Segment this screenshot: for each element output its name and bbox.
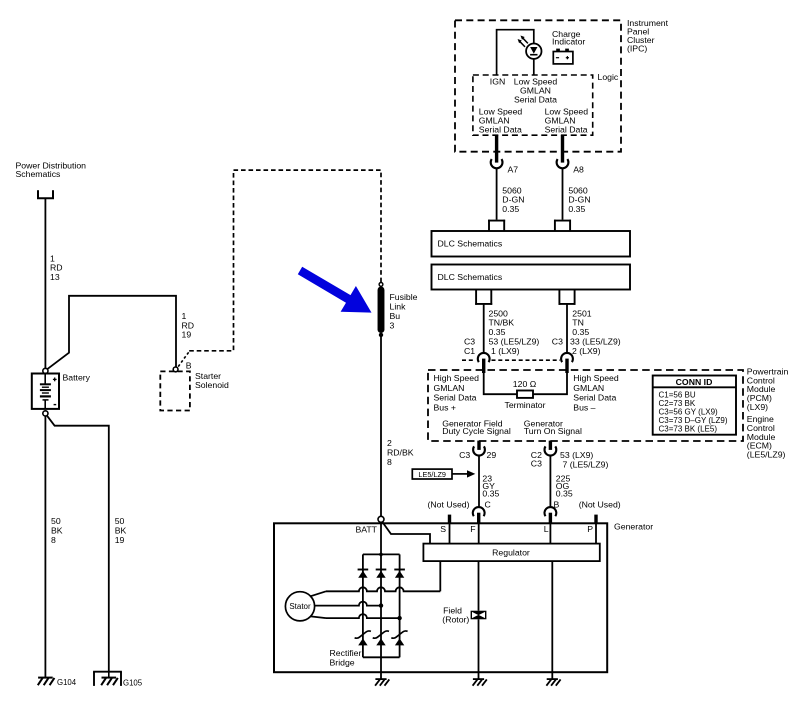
svg-text:2: 2 [387, 438, 392, 448]
svg-text:1 (LX9): 1 (LX9) [491, 346, 520, 356]
off-page connector into DLC (left) [488, 220, 490, 231]
wire S to regulator [449, 523, 451, 543]
svg-text:Serial Data: Serial Data [514, 94, 557, 104]
node battery positive [43, 368, 48, 373]
svg-text:BATT: BATT [355, 524, 377, 534]
field rotor winding [471, 611, 487, 620]
junction dot phase 3 [397, 616, 401, 620]
CONN ID header line [653, 386, 736, 388]
svg-text:Terminator: Terminator [505, 400, 546, 410]
svg-text:GMLAN: GMLAN [434, 383, 465, 393]
svg-text:RD/BK: RD/BK [387, 448, 414, 458]
svg-text:Indicator: Indicator [552, 36, 585, 46]
svg-text:Regulator: Regulator [492, 548, 530, 558]
ground G105 [108, 672, 110, 678]
svg-text:0.35: 0.35 [572, 327, 589, 337]
svg-text:0.35: 0.35 [568, 204, 585, 214]
svg-text:P: P [587, 524, 593, 534]
rectifier bottom bus [363, 656, 400, 658]
off-page connector out of DLC (left) [475, 290, 477, 305]
diode bottom leg3 [391, 631, 407, 638]
svg-text:C1: C1 [464, 346, 475, 356]
terminal blade A7 [495, 135, 498, 162]
junction dot below fusible link [379, 333, 383, 337]
connector C3 pin 29 cup [473, 446, 485, 455]
svg-text:(IPC): (IPC) [627, 44, 647, 54]
connector C3 hood (right) [561, 353, 573, 362]
ground G105 bracket [93, 672, 95, 686]
wire 5060 D-GN 0.35 (A7) [496, 168, 498, 219]
wire L to ground [551, 561, 553, 679]
svg-text:0.35: 0.35 [502, 204, 519, 214]
svg-text:Bridge: Bridge [330, 658, 355, 668]
svg-text:13: 13 [50, 272, 60, 282]
svg-text:0.35: 0.35 [489, 327, 506, 337]
svg-text:Turn On Signal: Turn On Signal [524, 426, 582, 436]
stator phase wire 2 [315, 602, 381, 606]
off-page connector out of DLC (right) [558, 290, 560, 305]
battery icon charge indicator [553, 52, 573, 64]
svg-text:Rectifier: Rectifier [330, 648, 362, 658]
terminal stub S (not used) [448, 515, 451, 524]
wire 1 RD 13 [44, 198, 46, 368]
svg-text:C: C [485, 500, 491, 510]
charge indicator lamp LED [526, 44, 541, 59]
DLC Schematics box 1 [432, 231, 631, 257]
logic dashed box [473, 75, 593, 135]
wire IGN to indicator lamp [497, 30, 534, 75]
svg-text:Serial Data: Serial Data [573, 393, 616, 403]
terminal blade C3-29 [477, 441, 480, 450]
svg-text:IGN: IGN [490, 77, 505, 87]
terminal blade into PCM (left) [482, 359, 485, 373]
svg-text:C3: C3 [531, 459, 542, 469]
svg-text:High Speed: High Speed [434, 373, 480, 383]
diode top leg2 [376, 569, 387, 571]
wire BATT into rectifier [380, 522, 382, 679]
svg-text:Battery: Battery [63, 373, 91, 383]
svg-text:Stator: Stator [289, 602, 311, 611]
svg-text:GMLAN: GMLAN [573, 383, 604, 393]
wire LED to logic [533, 59, 535, 75]
svg-text:8: 8 [51, 535, 56, 545]
svg-text:LE5/LZ9: LE5/LZ9 [418, 470, 446, 479]
terminal blade F [477, 513, 480, 524]
node battery negative [43, 411, 48, 416]
stator phase wire 1 (to regulator) [311, 591, 326, 596]
svg-text:G104: G104 [57, 678, 77, 687]
dotted wire from B to fusible link [178, 351, 189, 367]
LE5/LZ9 arrow [452, 473, 468, 475]
svg-text:C3: C3 [552, 337, 563, 347]
regulator box [423, 544, 599, 562]
svg-text:S: S [440, 524, 446, 534]
wire field to ground [478, 619, 480, 679]
starter solenoid dashed box [160, 371, 190, 410]
svg-text:A8: A8 [573, 164, 584, 174]
fusible link Bu 3 [378, 290, 385, 330]
svg-text:DLC Schematics: DLC Schematics [438, 272, 503, 282]
wire bus+ to terminator [484, 373, 517, 394]
wire 225 OG 0.35 [549, 456, 551, 508]
wire 23 GY 0.35 [478, 456, 480, 508]
svg-text:Link: Link [390, 302, 407, 312]
stator circle [285, 592, 314, 621]
svg-text:Fusible: Fusible [390, 292, 418, 302]
wire 2500 TN/BK 0.35 [483, 304, 485, 353]
wire branch to starter solenoid [47, 296, 176, 369]
terminal circle at fusible link [379, 283, 383, 287]
wire regulator to field [478, 561, 480, 611]
svg-text:C3: C3 [459, 450, 470, 460]
svg-text:Serial Data: Serial Data [545, 124, 588, 134]
svg-text:(LX9): (LX9) [747, 402, 768, 412]
wire 2501 TN 0.35 [566, 304, 568, 353]
CONN ID table box [653, 376, 736, 435]
terminal blade A8 [561, 135, 564, 162]
svg-text:29: 29 [487, 450, 497, 460]
IPC dashed box [455, 20, 621, 151]
svg-text:Logic: Logic [598, 72, 619, 82]
svg-text:Bu: Bu [390, 311, 401, 321]
diode bottom leg1 [355, 631, 371, 638]
svg-text:7 (LE5/LZ9): 7 (LE5/LZ9) [563, 460, 609, 470]
wire F to regulator [478, 523, 480, 543]
wire P to regulator [595, 523, 597, 543]
ground below rectifier [375, 678, 386, 680]
svg-text:Generator: Generator [614, 522, 653, 532]
rectifier top bus [363, 553, 400, 555]
svg-text:(Not Used): (Not Used) [579, 500, 621, 510]
blue arrow pointing at fusible link [298, 267, 372, 313]
ground G104 [38, 677, 53, 679]
LE5/LZ9 callout box [412, 469, 452, 479]
svg-text:(LE5/LZ9): (LE5/LZ9) [747, 450, 786, 460]
connector A8 cup [557, 159, 569, 168]
diode bottom leg2 [373, 631, 389, 638]
wire to G105 [47, 415, 109, 671]
ground below field [473, 678, 484, 680]
wire 2 RD/BK 8 [380, 337, 382, 517]
connector B hood [545, 507, 557, 516]
svg-text:0.35: 0.35 [556, 488, 573, 498]
node B starter solenoid [173, 367, 178, 372]
junction dot BATT bus [379, 553, 383, 557]
wire regulator voltage sense [439, 561, 441, 591]
svg-text:CONN ID: CONN ID [676, 377, 713, 387]
svg-text:3: 3 [390, 321, 395, 331]
svg-text:L: L [544, 524, 549, 534]
terminal blade C2/C3 [549, 441, 552, 450]
node BATT terminal [378, 516, 384, 522]
connector C3/C1 hood (left) [478, 353, 490, 362]
svg-text:8: 8 [387, 457, 392, 467]
diode top leg3 [394, 569, 405, 571]
wire BATT to regulator [382, 522, 430, 544]
svg-text:Bus +: Bus + [434, 403, 456, 413]
svg-text:120 Ω: 120 Ω [513, 379, 537, 389]
wire 5060 D-GN 0.35 (A8) [562, 168, 564, 219]
ground below L wire [547, 678, 558, 680]
wire bus- to terminator [533, 373, 567, 394]
svg-text:Schematics: Schematics [16, 169, 62, 179]
PCM/ECM dashed box [428, 370, 743, 441]
svg-text:(Rotor): (Rotor) [442, 614, 469, 624]
svg-text:Serial Data: Serial Data [434, 393, 477, 403]
rectifier leg 1 [362, 554, 364, 657]
svg-text:DLC Schematics: DLC Schematics [438, 239, 503, 249]
svg-text:C3=73 BK (LE5): C3=73 BK (LE5) [659, 424, 718, 433]
battery B1 plates [44, 374, 46, 385]
svg-text:High Speed: High Speed [573, 373, 619, 383]
wire L to regulator [549, 523, 551, 543]
connector A7 cup [491, 159, 503, 168]
rectifier leg 3 [399, 554, 401, 657]
off-page connector from power distribution [37, 190, 39, 198]
svg-text:G105: G105 [123, 679, 143, 688]
terminal blade L [549, 513, 552, 524]
svg-text:Serial Data: Serial Data [479, 124, 522, 134]
LED light arrows [523, 38, 528, 43]
svg-text:Duty Cycle Signal: Duty Cycle Signal [442, 426, 511, 436]
resistor terminator 120 ohm [517, 391, 533, 398]
svg-text:F: F [470, 524, 475, 534]
svg-text:A7: A7 [508, 164, 519, 174]
junction dot phase 2 [379, 603, 383, 607]
stator phase wire 3 [311, 616, 326, 618]
svg-text:(Not Used): (Not Used) [428, 500, 470, 510]
connector C hood [473, 507, 485, 516]
wire to G104 [44, 416, 46, 678]
terminal blade into PCM (right) [565, 359, 568, 373]
off-page connector into DLC (right) [554, 220, 556, 231]
connector dashes between C3 connectors [462, 359, 475, 361]
svg-text:19: 19 [182, 330, 192, 340]
svg-text:0.35: 0.35 [482, 488, 499, 498]
svg-text:19: 19 [115, 535, 125, 545]
svg-text:Solenoid: Solenoid [195, 380, 229, 390]
svg-text:B: B [186, 360, 192, 370]
diode top leg1 [358, 569, 369, 571]
connector C2/C3 cup [545, 446, 557, 455]
terminal stub P (not used) [594, 515, 597, 524]
svg-text:Bus –: Bus – [573, 403, 595, 413]
battery B1 box [32, 374, 59, 409]
generator box [274, 523, 607, 672]
svg-text:2 (LX9): 2 (LX9) [572, 346, 601, 356]
DLC Schematics box 2 [432, 265, 631, 290]
